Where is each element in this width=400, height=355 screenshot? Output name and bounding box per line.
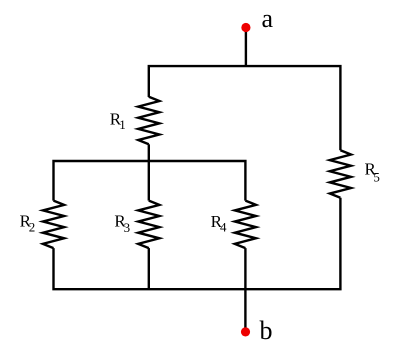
svg-text:a: a <box>262 4 274 33</box>
svg-text:2: 2 <box>29 220 36 235</box>
svg-text:1: 1 <box>119 117 126 132</box>
svg-text:4: 4 <box>220 219 227 234</box>
svg-text:b: b <box>260 316 273 345</box>
svg-text:3: 3 <box>124 220 131 235</box>
svg-text:5: 5 <box>373 170 380 185</box>
